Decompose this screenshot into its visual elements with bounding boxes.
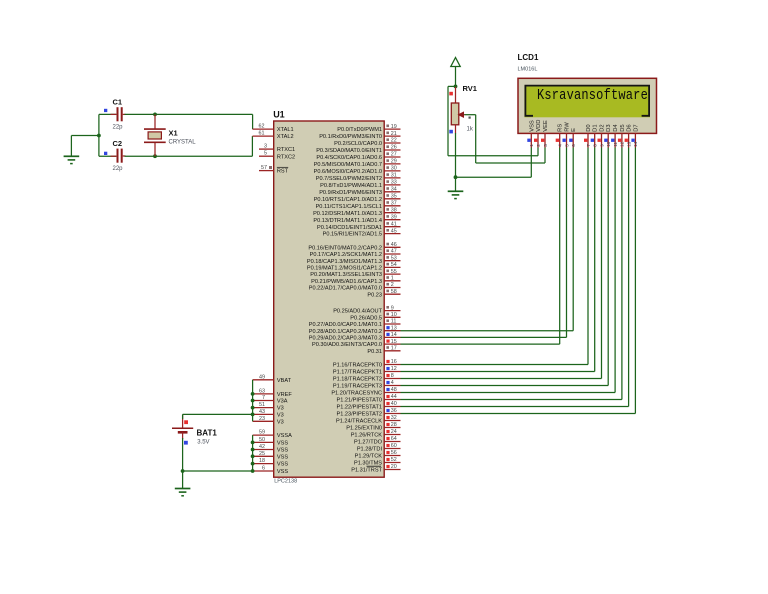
svg-text:53: 53 (391, 255, 397, 261)
svg-text:P0.14/DCD1/EINT1/SDA1: P0.14/DCD1/EINT1/SDA1 (317, 225, 382, 231)
svg-text:36: 36 (391, 408, 397, 414)
wire ground to LCD VSS (456, 148, 532, 178)
value 22p of C1 (113, 125, 124, 131)
svg-text:4: 4 (558, 144, 563, 147)
wire power to LCD VDD (448, 86, 538, 155)
svg-text:P0.9/RxD1/PWM6/EINT3: P0.9/RxD1/PWM6/EINT3 (319, 190, 382, 196)
node marker BAT1 positive (184, 420, 188, 424)
pin RTXC1 (pin 3) of U1 (259, 144, 295, 154)
svg-text:23: 23 (259, 416, 265, 422)
pin P0.31 (pin 17) of U1 (367, 346, 400, 355)
svg-text:50: 50 (259, 437, 265, 443)
svg-text:39: 39 (391, 214, 397, 220)
svg-text:17: 17 (391, 346, 397, 352)
svg-text:Ksravansoftware: Ksravansoftware (537, 88, 648, 105)
pin P0.18/CAP1.3/MISO1/MAT1.3 (pin 53) of U1 (307, 255, 401, 264)
wire P1 pin 36 to LCD D7 (401, 148, 636, 414)
svg-text:21: 21 (391, 131, 397, 137)
svg-text:38: 38 (391, 207, 397, 213)
svg-text:P0.7/SSEL0/PWM2/EINT2: P0.7/SSEL0/PWM2/EINT2 (316, 176, 382, 182)
svg-text:7: 7 (586, 144, 591, 147)
pin D3 (pin 10) of LCD1 (604, 124, 612, 147)
svg-text:P0.10/RTS1/CAP1.0/AD1.2: P0.10/RTS1/CAP1.0/AD1.2 (314, 197, 382, 203)
svg-text:28: 28 (391, 422, 397, 428)
pin P0.25/AD0.4/AOUT (pin 9) of U1 (333, 305, 400, 314)
wire VSS bus vertical (252, 435, 254, 471)
ground left of caps (64, 156, 80, 163)
pin P0.17/CAP1.2/SCK1/MAT1.2 (pin 47) of U1 (310, 249, 401, 258)
pin P0.15/RI1/EINT2/AD1.5 (pin 45) of U1 (323, 228, 401, 237)
svg-text:16: 16 (391, 359, 397, 365)
svg-text:VSS: VSS (277, 469, 288, 475)
svg-text:P0.27/AD0.0/CAP0.1/MAT0.1: P0.27/AD0.0/CAP0.1/MAT0.1 (309, 322, 382, 328)
wire caps left vertical (98, 114, 100, 156)
svg-text:13: 13 (391, 325, 397, 331)
pin P0.27/AD0.0/CAP0.1/MAT0.1 (pin 11) of U1 (309, 319, 401, 328)
junction node crystal bottom (153, 154, 157, 158)
pin P0.28/AD0.1/CAP0.2/MAT0.2 (pin 13) of U1 (309, 325, 401, 334)
pin P0.8/TxD1/PWM4/AD1.1 (pin 33) of U1 (320, 180, 400, 189)
pin P0.14/DCD1/EINT1/SDA1 (pin 41) of U1 (317, 221, 400, 230)
svg-text:RTXC1: RTXC1 (277, 147, 295, 153)
pin VBAT (pin 49) of U1 (253, 374, 292, 384)
svg-text:55: 55 (391, 269, 397, 275)
value LPC2138 of U1 (274, 479, 297, 485)
svg-text:P0.12/DSR1/MAT1.0/AD1.3: P0.12/DSR1/MAT1.0/AD1.3 (313, 211, 382, 217)
value 22p of C2 (113, 166, 124, 172)
svg-text:P0.15/RI1/EINT2/AD1.5: P0.15/RI1/EINT2/AD1.5 (323, 232, 382, 238)
wire C2 right to XTAL2 (123, 136, 253, 156)
pin D0 (pin 7) of LCD1 (584, 124, 592, 147)
svg-text:P0.8/TxD1/PWM4/AD1.1: P0.8/TxD1/PWM4/AD1.1 (320, 183, 382, 189)
svg-text:P0.3/SDA0/MAT0.0/EINT1: P0.3/SDA0/MAT0.0/EINT1 (316, 148, 382, 154)
svg-text:V3: V3 (277, 419, 284, 425)
pin P0.2/SCL0/CAP0.0 (pin 22) of U1 (334, 138, 400, 147)
svg-text:P1.19/TRACEPKT3: P1.19/TRACEPKT3 (333, 384, 382, 390)
svg-text:P0.13/DTR1/MAT1.1/AD1.4: P0.13/DTR1/MAT1.1/AD1.4 (313, 218, 382, 224)
pin VSS (pin 18) of U1 (253, 458, 289, 468)
pin D6 (pin 13) of LCD1 (625, 124, 633, 147)
pin P1.28/TDI (pin 60) of U1 (357, 443, 401, 452)
battery BAT1 (172, 428, 193, 432)
svg-text:11: 11 (391, 319, 397, 325)
svg-text:CRYSTAL: CRYSTAL (169, 140, 197, 146)
pin P1.27/TDO (pin 64) of U1 (354, 436, 400, 445)
svg-text:RW: RW (565, 122, 571, 132)
pin P1.23/PIPESTAT2 (pin 36) of U1 (337, 408, 401, 417)
svg-text:P0.5/MISO0/MAT0.1/AD0.7: P0.5/MISO0/MAT0.1/AD0.7 (314, 162, 382, 168)
label RV1 (463, 84, 477, 93)
svg-text:9: 9 (599, 144, 604, 147)
pin V3 (pin 23) of U1 (253, 416, 284, 426)
svg-text:RTXC2: RTXC2 (277, 154, 295, 160)
svg-text:41: 41 (391, 221, 397, 227)
svg-text:P0.11/CTS1/CAP1.1/SCL1: P0.11/CTS1/CAP1.1/SCL1 (316, 204, 382, 210)
svg-text:14: 14 (633, 141, 638, 147)
wire P1 pin 12 to LCD D1 (401, 148, 595, 372)
pin P0.12/DSR1/MAT1.0/AD1.3 (pin 38) of U1 (313, 207, 400, 216)
svg-text:58: 58 (391, 289, 397, 295)
wire P1 pin 4 to LCD D3 (401, 148, 609, 386)
junction node battery-ground (181, 469, 185, 473)
node marker C2 pin (104, 152, 107, 155)
lcd text Ksravansoftware (537, 88, 648, 105)
svg-text:45: 45 (391, 228, 397, 234)
pin D5 (pin 12) of LCD1 (618, 124, 626, 147)
svg-text:P0.0/TxD0/PWM1: P0.0/TxD0/PWM1 (337, 127, 382, 133)
node marker BAT1 negative (184, 441, 188, 445)
svg-text:57: 57 (261, 165, 267, 171)
svg-text:60: 60 (391, 443, 397, 449)
svg-text:D6: D6 (627, 124, 633, 131)
crystal X1 (144, 114, 166, 156)
svg-text:37: 37 (391, 201, 397, 207)
junction node crystal top (153, 113, 157, 117)
node marker RV1 bottom (449, 130, 453, 134)
svg-text:D1: D1 (593, 124, 599, 131)
pin VDD (pin 2) of LCD1 (534, 120, 542, 148)
svg-text:P1.26/RTCK: P1.26/RTCK (351, 433, 383, 439)
svg-text:29: 29 (391, 159, 397, 165)
pin XTAL1 (pin 62) of U1 (253, 124, 294, 134)
svg-text:51: 51 (259, 402, 265, 408)
wire P0 pin 13 to LCD E (401, 148, 574, 331)
svg-text:14: 14 (391, 332, 397, 338)
svg-text:P0.20/MAT1.3/SSEL1/EINT3: P0.20/MAT1.3/SSEL1/EINT3 (310, 272, 382, 278)
svg-text:47: 47 (391, 249, 397, 255)
node marker C1 pin (104, 109, 107, 112)
junction node caps-ground (97, 134, 101, 138)
pin VSS (pin 25) of U1 (253, 451, 289, 461)
svg-text:20: 20 (391, 464, 397, 470)
svg-text:VSSA: VSSA (277, 433, 292, 439)
svg-text:15: 15 (391, 339, 397, 345)
ic U1 body (274, 121, 385, 477)
wire P0 pin 14 to LCD RW (401, 148, 567, 338)
capacitor C1 (117, 107, 123, 121)
svg-text:VREF: VREF (277, 392, 293, 398)
svg-text:6: 6 (571, 144, 576, 147)
pin P0.21/PWM5/AD1.6/CAP1.3 (pin 1) of U1 (311, 276, 400, 285)
pin P0.7/SSEL0/PWM2/EINT2 (pin 31) of U1 (316, 173, 401, 182)
svg-text:P1.16/TRACEPKT0: P1.16/TRACEPKT0 (333, 363, 382, 369)
svg-text:P1.18/TRACEPKT2: P1.18/TRACEPKT2 (333, 377, 382, 383)
svg-text:3.5V: 3.5V (197, 440, 209, 446)
pin P0.22/AD1.7/CAP0.0/MAT0.0 (pin 2) of U1 (309, 282, 401, 291)
wiper position mark (469, 117, 471, 119)
power terminal above RV1 (451, 58, 460, 87)
pin P0.4/SCK0/CAP0.1/AD0.6 (pin 27) of U1 (316, 152, 400, 161)
svg-text:RST: RST (277, 169, 289, 175)
svg-text:P0.6/MOSI0/CAP0.2/AD1.0: P0.6/MOSI0/CAP0.2/AD1.0 (314, 169, 382, 175)
svg-text:RV1: RV1 (463, 84, 477, 93)
label C1 (113, 98, 123, 107)
pin D4 (pin 11) of LCD1 (611, 124, 619, 148)
svg-text:8: 8 (593, 144, 598, 147)
pin P0.9/RxD1/PWM6/EINT3 (pin 34) of U1 (319, 187, 400, 196)
svg-text:61: 61 (259, 131, 265, 137)
svg-text:D2: D2 (600, 124, 606, 131)
pin P1.18/TRACEPKT2 (pin 8) of U1 (333, 373, 401, 382)
pin VSSA (pin 59) of U1 (253, 430, 292, 440)
pin P0.30/AD0.3/EINT3/CAP0.0 (pin 15) of U1 (312, 339, 400, 348)
pin D1 (pin 8) of LCD1 (591, 124, 599, 147)
potentiometer RV1 (451, 86, 464, 133)
svg-text:52: 52 (391, 457, 397, 463)
svg-text:LCD1: LCD1 (518, 53, 539, 62)
svg-text:10: 10 (391, 312, 397, 318)
pin P0.10/RTS1/CAP1.0/AD1.2 (pin 35) of U1 (314, 194, 401, 203)
svg-text:P0.21/PWM5/AD1.6/CAP1.3: P0.21/PWM5/AD1.6/CAP1.3 (311, 279, 382, 285)
pin V3 (pin 51) of U1 (253, 402, 284, 412)
svg-text:44: 44 (391, 394, 397, 400)
svg-text:18: 18 (259, 458, 265, 464)
value 3.5V of BAT1 (197, 440, 209, 446)
junction nodes on VSS bus (251, 441, 255, 473)
svg-text:4: 4 (391, 380, 394, 386)
wire P1 pin 8 to LCD D2 (401, 148, 602, 379)
svg-text:P0.29/AD0.2/CAP0.3/MAT0.3: P0.29/AD0.2/CAP0.3/MAT0.3 (309, 336, 382, 342)
wire P0 pin 15 to LCD RS (401, 148, 560, 345)
svg-text:P1.25/EXTIN0: P1.25/EXTIN0 (346, 426, 382, 432)
pin P1.26/RTCK (pin 24) of U1 (351, 429, 401, 438)
label BAT1 (197, 429, 218, 438)
svg-text:P1.31/TRST: P1.31/TRST (351, 468, 382, 474)
svg-text:22p: 22p (113, 125, 124, 131)
wire to left ground (71, 136, 99, 157)
svg-text:48: 48 (391, 387, 397, 393)
svg-text:VDD: VDD (536, 120, 542, 132)
pin P1.22/PIPESTAT1 (pin 40) of U1 (337, 401, 401, 410)
svg-text:13: 13 (626, 141, 631, 147)
svg-text:D5: D5 (620, 124, 626, 131)
pin RW (pin 5) of LCD1 (563, 122, 571, 148)
svg-text:P1.17/TRACEPKT1: P1.17/TRACEPKT1 (333, 370, 382, 376)
svg-text:1: 1 (529, 144, 534, 147)
pin P1.25/EXTIN0 (pin 28) of U1 (346, 422, 400, 431)
svg-text:P0.18/CAP1.3/MISO1/MAT1.3: P0.18/CAP1.3/MISO1/MAT1.3 (307, 259, 382, 265)
wire RV1 wiper to LCD VEE (465, 115, 546, 163)
wire BAT1 positive to V3 bus (183, 414, 253, 428)
svg-text:8: 8 (391, 373, 394, 379)
svg-text:35: 35 (391, 194, 397, 200)
pin D2 (pin 9) of LCD1 (598, 124, 606, 147)
svg-text:LPC2138: LPC2138 (274, 479, 297, 485)
pin VREF (pin 63) of U1 (253, 388, 293, 398)
svg-text:59: 59 (259, 430, 265, 436)
svg-text:3: 3 (543, 144, 548, 147)
pin P0.11/CTS1/CAP1.1/SCL1 (pin 37) of U1 (316, 201, 401, 210)
wire P1 pin 48 to LCD D4 (401, 148, 616, 393)
svg-text:22: 22 (391, 138, 397, 144)
pin P1.21/PIPESTAT0 (pin 44) of U1 (337, 394, 401, 403)
svg-text:RS: RS (558, 124, 564, 132)
svg-text:P0.16/EINT0/MAT0.2/CAP0.2: P0.16/EINT0/MAT0.2/CAP0.2 (308, 245, 382, 251)
svg-text:P1.27/TDO: P1.27/TDO (354, 440, 383, 446)
label U1 (273, 109, 285, 119)
svg-text:D0: D0 (586, 124, 592, 131)
svg-text:33: 33 (391, 180, 397, 186)
svg-text:E: E (571, 128, 577, 132)
svg-text:49: 49 (259, 374, 265, 380)
pin P1.31/TRST (pin 20) of U1 (351, 464, 400, 473)
svg-text:2: 2 (536, 144, 541, 147)
pin RST (pin 57) of U1 (259, 165, 289, 175)
svg-text:VBAT: VBAT (277, 378, 292, 384)
pin P0.29/AD0.2/CAP0.3/MAT0.3 (pin 14) of U1 (309, 332, 401, 341)
svg-text:VSS: VSS (277, 448, 288, 454)
svg-text:P1.30/TMS: P1.30/TMS (354, 461, 382, 467)
svg-text:11: 11 (613, 142, 618, 147)
svg-text:XTAL2: XTAL2 (277, 134, 294, 140)
pin P0.3/SDA0/MAT0.0/EINT1 (pin 26) of U1 (316, 145, 400, 154)
pin D7 (pin 14) of LCD1 (631, 124, 639, 147)
wire P1 pin 40 to LCD D6 (401, 148, 629, 407)
svg-text:12: 12 (391, 366, 397, 372)
wire BAT1 negative to VSS bus and ground (183, 432, 253, 488)
svg-text:40: 40 (391, 401, 397, 407)
svg-text:D7: D7 (633, 124, 639, 131)
svg-text:1k: 1k (467, 127, 474, 133)
svg-text:P1.24/TRACECLK: P1.24/TRACECLK (336, 419, 382, 425)
svg-text:P0.23: P0.23 (367, 292, 382, 298)
svg-text:2: 2 (391, 282, 394, 288)
svg-text:C1: C1 (113, 98, 123, 107)
svg-text:56: 56 (391, 450, 397, 456)
pin P0.19/MAT1.2/MOSI1/CAP1.2 (pin 54) of U1 (307, 262, 401, 271)
svg-text:54: 54 (391, 262, 397, 268)
pin P1.20/TRACESYNC (pin 48) of U1 (331, 387, 400, 396)
svg-text:P0.31: P0.31 (367, 349, 382, 355)
svg-text:VSS: VSS (277, 441, 288, 447)
value CRYSTAL of X1 (169, 140, 197, 146)
value LM016L of LCD1 (518, 67, 538, 73)
pin P1.17/TRACEPKT1 (pin 12) of U1 (333, 366, 401, 375)
svg-text:VSS: VSS (529, 120, 535, 132)
svg-text:42: 42 (259, 444, 265, 450)
svg-text:P1.22/PIPESTAT1: P1.22/PIPESTAT1 (337, 405, 383, 411)
ground below battery (175, 489, 191, 496)
pin P0.20/MAT1.3/SSEL1/EINT3 (pin 55) of U1 (310, 269, 400, 278)
pin V3 (pin 43) of U1 (253, 409, 284, 419)
svg-text:22p: 22p (113, 166, 124, 172)
svg-text:10: 10 (606, 141, 611, 147)
pin VSS (pin 6) of U1 (253, 466, 289, 476)
svg-text:7: 7 (262, 395, 265, 401)
svg-text:BAT1: BAT1 (197, 429, 218, 438)
pin VEE (pin 3) of LCD1 (541, 120, 549, 147)
svg-text:31: 31 (391, 173, 397, 179)
svg-text:32: 32 (391, 415, 397, 421)
label LCD1 (518, 53, 539, 62)
pin RS (pin 4) of LCD1 (556, 124, 564, 148)
pin P0.0/TxD0/PWM1 (pin 19) of U1 (337, 124, 400, 133)
pin P1.30/TMS (pin 52) of U1 (354, 457, 400, 466)
svg-text:V3: V3 (277, 406, 284, 412)
value 1k of RV1 (467, 127, 474, 133)
wire RV1 bottom to ground (455, 133, 457, 191)
svg-text:P1.21/PIPESTAT0: P1.21/PIPESTAT0 (337, 398, 383, 404)
svg-text:34: 34 (391, 187, 397, 193)
pin VSS (pin 1) of LCD1 (527, 120, 535, 147)
svg-text:X1: X1 (169, 129, 178, 138)
wire C1 left to junction (99, 113, 116, 115)
svg-text:26: 26 (391, 145, 397, 151)
label X1 (169, 129, 178, 138)
svg-text:U1: U1 (273, 109, 285, 119)
wire C1 right to XTAL1 (123, 114, 253, 129)
svg-text:30: 30 (391, 166, 397, 172)
wire C2 left to junction (99, 155, 116, 157)
pin P1.16/TRACEPKT0 (pin 16) of U1 (333, 359, 401, 368)
capacitor C2 (117, 149, 123, 163)
svg-text:VSS: VSS (277, 454, 288, 460)
label C2 (113, 139, 123, 148)
pin E (pin 6) of LCD1 (569, 128, 577, 148)
svg-text:C2: C2 (113, 139, 123, 148)
lcd LCD1 body (518, 78, 657, 133)
pin VSS (pin 50) of U1 (253, 437, 289, 447)
node marker RV1 top (449, 92, 453, 96)
svg-text:P0.19/MAT1.2/MOSI1/CAP1.2: P0.19/MAT1.2/MOSI1/CAP1.2 (307, 266, 382, 272)
svg-text:64: 64 (391, 436, 397, 442)
svg-text:V3: V3 (277, 413, 284, 419)
svg-text:P1.28/TDI: P1.28/TDI (357, 447, 383, 453)
svg-text:24: 24 (391, 429, 397, 435)
pin P0.6/MOSI0/CAP0.2/AD1.0 (pin 30) of U1 (314, 166, 401, 175)
svg-text:LM016L: LM016L (518, 67, 538, 73)
svg-text:P0.4/SCK0/CAP0.1/AD0.6: P0.4/SCK0/CAP0.1/AD0.6 (316, 155, 382, 161)
svg-text:1: 1 (391, 276, 394, 282)
pin P0.26/AD0.5 (pin 10) of U1 (350, 312, 400, 321)
pin P0.23 (pin 58) of U1 (367, 289, 400, 298)
pin P0.13/DTR1/MAT1.1/AD1.4 (pin 39) of U1 (313, 214, 400, 223)
svg-text:P0.26/AD0.5: P0.26/AD0.5 (350, 315, 382, 321)
pin P1.29/TCK (pin 56) of U1 (355, 450, 401, 459)
junction node RV1 top (454, 85, 458, 89)
svg-text:P0.1/RxD0/PWM3/EINT0: P0.1/RxD0/PWM3/EINT0 (319, 134, 382, 140)
svg-text:19: 19 (391, 124, 397, 130)
wire P1 pin 44 to LCD D5 (401, 148, 622, 400)
lcd screen (524, 85, 650, 117)
svg-text:9: 9 (391, 305, 394, 311)
svg-text:27: 27 (391, 152, 397, 158)
svg-text:VSS: VSS (277, 462, 288, 468)
svg-text:25: 25 (259, 451, 265, 457)
svg-text:5: 5 (564, 144, 569, 147)
svg-text:P0.25/AD0.4/AOUT: P0.25/AD0.4/AOUT (333, 309, 382, 315)
pin P1.19/TRACEPKT3 (pin 4) of U1 (333, 380, 401, 389)
svg-text:D4: D4 (613, 124, 619, 132)
wire V3 bus vertical (252, 380, 254, 422)
wire P1 pin 16 to LCD D0 (401, 148, 589, 365)
pin P1.24/TRACECLK (pin 32) of U1 (336, 415, 401, 424)
svg-text:46: 46 (391, 242, 397, 248)
junction nodes on V3 bus (251, 392, 255, 416)
svg-text:62: 62 (259, 124, 265, 130)
svg-text:5: 5 (264, 151, 267, 157)
svg-text:P0.28/AD0.1/CAP0.2/MAT0.2: P0.28/AD0.1/CAP0.2/MAT0.2 (309, 329, 382, 335)
svg-text:P1.20/TRACESYNC: P1.20/TRACESYNC (331, 391, 382, 397)
svg-text:P0.17/CAP1.2/SCK1/MAT1.2: P0.17/CAP1.2/SCK1/MAT1.2 (310, 252, 382, 258)
svg-text:P0.30/AD0.3/EINT3/CAP0.0: P0.30/AD0.3/EINT3/CAP0.0 (312, 342, 382, 348)
svg-text:12: 12 (620, 141, 625, 147)
svg-text:XTAL1: XTAL1 (277, 127, 294, 133)
svg-text:63: 63 (259, 388, 265, 394)
svg-text:V3A: V3A (277, 399, 288, 405)
pin P0.5/MISO0/MAT0.1/AD0.7 (pin 29) of U1 (314, 159, 401, 168)
svg-text:P0.2/SCL0/CAP0.0: P0.2/SCL0/CAP0.0 (334, 141, 382, 147)
